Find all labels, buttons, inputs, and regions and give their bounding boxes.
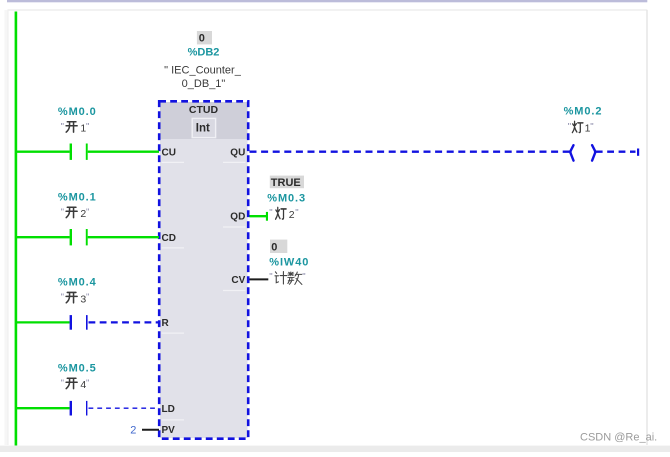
svg-text:PV: PV (162, 425, 176, 436)
QD wire end tick (266, 212, 268, 221)
svg-text:QU: QU (230, 147, 245, 158)
svg-text:": " (590, 121, 593, 132)
pin separator lines (162, 162, 246, 420)
wire QU to coil dashed (250, 151, 570, 153)
counter block dashed selection border (159, 101, 248, 438)
svg-text:%M0.3: %M0.3 (267, 192, 306, 204)
svg-text:": " (269, 208, 272, 219)
svg-text:": " (61, 378, 64, 389)
svg-text:" IEC_Counter_: " IEC_Counter_ (164, 65, 242, 77)
svg-text:": " (269, 271, 272, 282)
svg-text:0_DB_1": 0_DB_1" (182, 78, 226, 90)
svg-text:": " (61, 121, 64, 132)
DB instance value 0 box (197, 31, 212, 45)
svg-text:": " (86, 378, 89, 389)
QD value TRUE box (270, 176, 304, 189)
svg-text:CTUD: CTUD (189, 104, 219, 116)
wire end tick (637, 149, 639, 156)
top lavender divider line (7, 0, 647, 2)
svg-text:LD: LD (162, 404, 175, 415)
svg-text:%DB2: %DB2 (188, 46, 220, 58)
wire rail to contact 1 (16, 151, 70, 153)
counter block header fill (160, 102, 248, 139)
wire PV (142, 429, 159, 431)
svg-text:%M0.4: %M0.4 (58, 277, 97, 289)
coil %M0.2 (571, 145, 596, 160)
wire coil to end dashed (596, 151, 636, 153)
bottom status strip (0, 446, 670, 452)
svg-text:": " (61, 207, 64, 218)
wire rail to contact 3 (16, 321, 70, 323)
contact 3 (R input) (70, 315, 88, 330)
wire rail to contact 2 (16, 236, 70, 238)
svg-text:TRUE: TRUE (271, 177, 301, 189)
CV operand name "jishu" (269, 271, 305, 284)
svg-text:": " (302, 271, 305, 282)
operand name "kai3" (61, 292, 90, 305)
operand name "deng1" (568, 121, 594, 134)
contact 2 (CD input) (70, 229, 88, 245)
CV value 0 box (270, 240, 287, 254)
left power rail (15, 12, 18, 446)
wire CV black (250, 278, 269, 280)
counter block type box Int (192, 118, 215, 137)
svg-text:QD: QD (230, 212, 245, 223)
wire rail to contact 4 (16, 407, 70, 409)
contact 1 (CU input) (70, 144, 88, 160)
svg-text:2: 2 (289, 209, 295, 221)
operand name "kai1" (61, 121, 90, 134)
svg-text:": " (61, 292, 64, 303)
counter block U1 body fill (160, 102, 248, 438)
svg-text:CD: CD (162, 233, 176, 244)
wire contact 2 to CD (88, 236, 159, 238)
contact 4 (LD input) (70, 401, 88, 416)
wire contact 4 to LD thin dashed (89, 407, 160, 409)
svg-text:": " (86, 292, 89, 303)
operand name "kai2" (61, 207, 90, 220)
svg-text:R: R (162, 318, 170, 329)
QD operand name "deng2" (269, 207, 298, 221)
svg-text:CV: CV (231, 275, 245, 286)
svg-text:0: 0 (199, 33, 205, 45)
svg-text:%M0.2: %M0.2 (564, 105, 603, 117)
svg-text:Int: Int (196, 123, 210, 135)
svg-text:2: 2 (130, 424, 136, 436)
svg-text:CSDN @Re_ai.: CSDN @Re_ai. (580, 432, 657, 444)
svg-text:%M0.5: %M0.5 (58, 362, 97, 374)
panel top border (8, 9, 648, 10)
DB instance name IEC_Counter_0_DB_1 (164, 65, 242, 90)
wire contact 3 to R dashed (89, 321, 160, 323)
svg-text:CU: CU (162, 147, 176, 158)
panel left border (5, 10, 8, 445)
svg-text:": " (295, 208, 298, 219)
wire contact 1 to CU (88, 151, 159, 153)
panel right border (646, 10, 647, 445)
svg-text:": " (86, 207, 89, 218)
svg-text:0: 0 (271, 241, 277, 253)
svg-text:%M0.1: %M0.1 (58, 191, 97, 203)
wire QD green (250, 215, 267, 217)
svg-text:%IW40: %IW40 (269, 256, 309, 268)
svg-text:": " (86, 121, 89, 132)
operand name "kai4" (61, 378, 90, 391)
svg-text:": " (568, 121, 571, 132)
svg-text:%M0.0: %M0.0 (58, 106, 97, 118)
